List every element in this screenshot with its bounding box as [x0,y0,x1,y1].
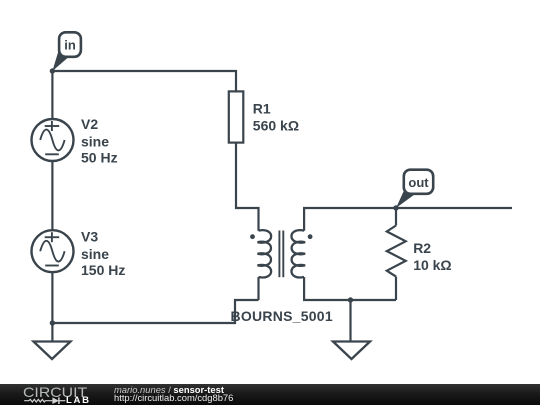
svg-text:560 kΩ: 560 kΩ [253,117,299,133]
svg-text:150 Hz: 150 Hz [81,262,125,278]
svg-text:V3: V3 [81,229,98,245]
svg-text:out: out [408,175,429,190]
svg-text:sine: sine [81,133,109,149]
svg-text:10 kΩ: 10 kΩ [413,257,451,273]
svg-text:in: in [64,37,76,52]
svg-text:R2: R2 [413,240,431,256]
svg-text:sine: sine [81,246,109,262]
svg-text:BOURNS_5001: BOURNS_5001 [231,308,333,324]
svg-text:R1: R1 [253,101,271,117]
svg-text:V2: V2 [81,116,98,132]
svg-text:50 Hz: 50 Hz [81,150,118,166]
